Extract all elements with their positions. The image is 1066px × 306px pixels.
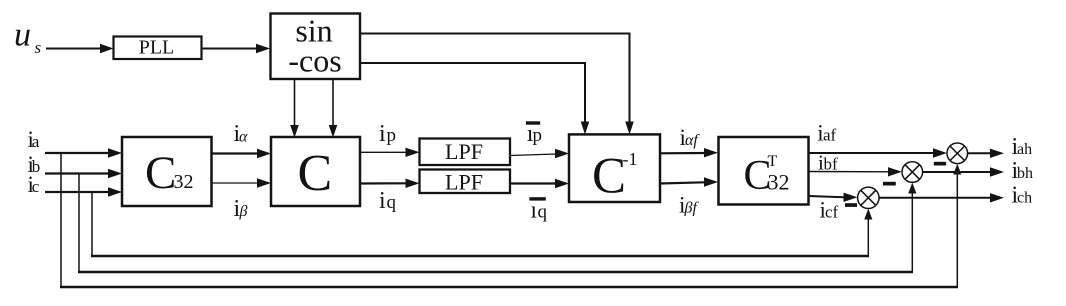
summing junction S3 bottom — [858, 187, 879, 208]
wire us to PLL — [46, 44, 114, 53]
svg-text:LPF: LPF — [445, 139, 483, 164]
svg-text:α: α — [239, 129, 248, 146]
block Cinv — [569, 134, 660, 204]
svg-text:αf: αf — [685, 132, 700, 149]
svg-text:i: i — [379, 188, 386, 214]
wire Cinv to C32T top — [660, 148, 718, 157]
wire Cinv to C32T bottom — [660, 177, 718, 186]
block C — [271, 137, 360, 206]
svg-text:C: C — [145, 147, 176, 199]
wire sincos to Cinv outer — [361, 34, 634, 135]
wire sincos to C right — [329, 80, 338, 138]
svg-text:32: 32 — [768, 170, 790, 195]
label iq — [379, 188, 397, 214]
block sin-cos U1 — [271, 12, 361, 79]
svg-text:LPF: LPF — [445, 169, 483, 194]
label iah — [1012, 134, 1033, 160]
label ibf — [818, 151, 838, 175]
label ib — [28, 152, 41, 177]
svg-text:T: T — [768, 153, 778, 170]
label ibar_p — [526, 121, 542, 147]
wire LPF1 to Cinv — [510, 149, 569, 158]
feedback wire ib to S2 — [78, 174, 916, 273]
wire iaf to sum1 — [809, 148, 947, 157]
svg-text:ch: ch — [1017, 190, 1032, 207]
svg-text:s: s — [35, 38, 42, 57]
wire iah output — [968, 149, 1004, 158]
label ibar_q — [529, 197, 547, 223]
block LPF2 — [420, 169, 511, 194]
svg-text:p: p — [387, 125, 397, 146]
label i_beta — [234, 196, 248, 222]
wire ia to C32 — [45, 148, 122, 157]
wire sincos to Cinv inner — [361, 63, 590, 135]
svg-text:PLL: PLL — [139, 37, 175, 59]
svg-text:β: β — [239, 203, 248, 220]
summing junction S1 top — [947, 143, 968, 164]
svg-text:-cos: -cos — [288, 42, 341, 78]
block PLL — [114, 37, 202, 60]
minus sign at S3 — [845, 203, 857, 207]
feedback wire ic to S3 — [91, 192, 872, 256]
label ia — [28, 127, 40, 152]
svg-text:bh: bh — [1017, 165, 1033, 182]
minus sign at S2 — [883, 182, 896, 186]
svg-text:C: C — [592, 149, 626, 205]
label ic — [28, 172, 40, 197]
svg-text:a: a — [32, 132, 40, 151]
label ibh — [1012, 158, 1034, 184]
svg-text:-1: -1 — [623, 149, 638, 169]
label i_betaf — [679, 193, 699, 218]
svg-text:C: C — [298, 145, 333, 202]
wire icf to sum3 — [809, 193, 858, 202]
svg-text:i: i — [379, 121, 386, 147]
svg-text:ah: ah — [1017, 141, 1032, 158]
feedback wire ia to S1 — [60, 153, 961, 287]
svg-text:cf: cf — [825, 203, 839, 222]
label u_s — [14, 17, 42, 58]
label ich — [1012, 183, 1033, 209]
wire ibh output — [923, 167, 1004, 176]
label ip — [379, 121, 396, 147]
wire ip C to LPF1 — [360, 148, 420, 157]
label i_alphaf — [680, 125, 701, 150]
svg-text:q: q — [387, 192, 397, 213]
wire ic to C32 — [45, 187, 122, 196]
block C32T — [719, 137, 809, 205]
svg-text:ı: ı — [530, 198, 537, 224]
wire LPF2 to Cinv — [510, 179, 569, 188]
wire ich output — [879, 193, 1004, 202]
minus sign at S1 — [934, 162, 946, 166]
svg-text:βf: βf — [684, 200, 700, 217]
block LPF1 — [420, 139, 511, 166]
summing junction S2 middle — [902, 162, 923, 183]
block C32 — [122, 137, 212, 206]
label i_alpha — [234, 121, 249, 147]
svg-text:af: af — [823, 126, 837, 145]
svg-text:u: u — [14, 17, 31, 54]
label iaf — [817, 121, 836, 146]
svg-text:c: c — [32, 177, 40, 196]
svg-text:bf: bf — [824, 155, 839, 174]
wire ib to C32 — [45, 169, 122, 178]
wire iq C to LPF2 — [360, 179, 420, 188]
svg-text:p: p — [533, 125, 543, 146]
wire i_alpha C32 to C — [212, 149, 272, 158]
wire sincos to C left — [290, 80, 299, 138]
wire PLL to sincos — [202, 44, 271, 53]
svg-text:32: 32 — [174, 171, 194, 193]
wire i_beta C32 to C — [212, 178, 272, 187]
label icf — [820, 198, 839, 223]
wire ibf to sum2 — [809, 167, 902, 176]
svg-text:q: q — [538, 202, 548, 223]
